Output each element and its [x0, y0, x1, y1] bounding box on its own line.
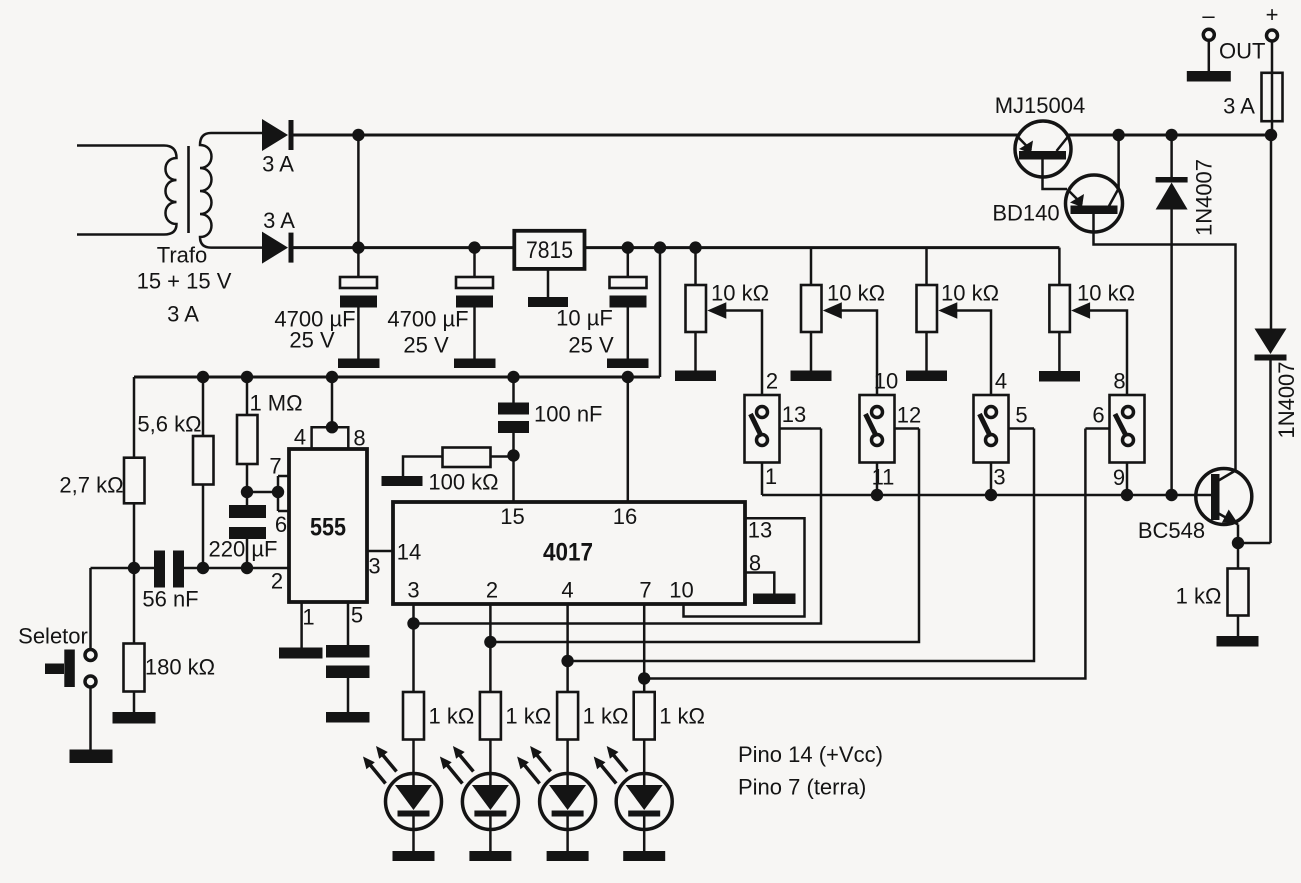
svg-text:7: 7 [639, 578, 651, 603]
ground under C1 [338, 359, 380, 369]
svg-text:3: 3 [407, 578, 419, 603]
svg-text:25 V: 25 V [403, 333, 449, 358]
svg-text:220 µF: 220 µF [209, 537, 278, 562]
resistor R3 1M [237, 371, 303, 505]
svg-text:3: 3 [993, 465, 1005, 490]
svg-text:10 kΩ: 10 kΩ [711, 281, 769, 306]
wire vertical link rail to +15V rail [654, 241, 666, 377]
svg-text:3 A: 3 A [1223, 94, 1255, 119]
wire 4017 pin3 to S1 [407, 429, 821, 693]
svg-text:1 kΩ: 1 kΩ [505, 704, 551, 729]
LED D3 [363, 740, 442, 852]
ground under P1 [675, 371, 716, 382]
svg-text:13: 13 [748, 518, 772, 543]
svg-text:3 A: 3 A [263, 208, 295, 233]
wire joining rectifier outputs [357, 135, 360, 248]
op-amp U2 4017 counter [393, 502, 745, 604]
svg-text:180 kΩ: 180 kΩ [145, 655, 215, 680]
svg-text:8: 8 [1113, 369, 1125, 394]
wire Q2 base to Q3 collector [1094, 214, 1236, 471]
svg-text:25 V: 25 V [568, 333, 614, 358]
capacitor C7 100nF [498, 371, 603, 502]
svg-text:–: – [1202, 3, 1215, 28]
LED D5 [517, 740, 596, 852]
ground under R4 [113, 712, 156, 724]
terminal OUT plus [1266, 2, 1279, 41]
svg-text:5: 5 [1015, 403, 1027, 428]
svg-text:6: 6 [275, 512, 287, 537]
svg-text:13: 13 [782, 402, 806, 427]
wire 4017 pin4 to S3 [561, 429, 1034, 693]
wire output plus branch [1269, 361, 1272, 544]
switch S2 contacts 10-12-11 [860, 369, 922, 496]
svg-text:BD140: BD140 [992, 201, 1059, 226]
ground under LED D3 [393, 851, 435, 861]
svg-text:2: 2 [271, 569, 283, 594]
svg-text:100 nF: 100 nF [534, 402, 603, 427]
wire 4017 pin7 to S4 [638, 429, 1085, 693]
ground under C3 [607, 359, 649, 369]
svg-text:OUT: OUT [1219, 39, 1265, 64]
potentiometer P4 10k [1049, 248, 1135, 395]
svg-text:10 kΩ: 10 kΩ [1077, 281, 1135, 306]
svg-text:2: 2 [766, 369, 778, 394]
capacitor C2 4700uF 25V [387, 241, 493, 358]
node junction top rail at C1 [352, 129, 364, 141]
ground 555 pin1 [279, 648, 323, 659]
switch S1 contacts 2-13-1 [745, 369, 822, 496]
svg-text:12: 12 [897, 403, 921, 428]
wire 4017 pin8 to ground [745, 551, 774, 594]
wire 4017 pin16 to +15V [622, 371, 634, 502]
pushbutton Seletor [18, 568, 96, 750]
wire Q2 collector to output rail [1112, 129, 1124, 189]
svg-text:1 kΩ: 1 kΩ [583, 704, 629, 729]
svg-text:10: 10 [874, 369, 898, 394]
transformer T1 Trafo 15+15V 3A [77, 133, 262, 327]
svg-text:15: 15 [500, 504, 524, 529]
svg-text:1 kΩ: 1 kΩ [1176, 584, 1222, 609]
ground under LED D4 [469, 851, 511, 861]
ground under LED D6 [623, 851, 665, 861]
svg-text:100 kΩ: 100 kΩ [428, 470, 498, 495]
wire 555 pin1 to ground [300, 602, 303, 648]
switch S3 contacts 4-5-3 [974, 369, 1035, 496]
ground under 7815 [528, 297, 568, 307]
svg-text:14: 14 [397, 540, 421, 565]
ground under P4 [1039, 371, 1080, 382]
wire top rail +V unregulated [294, 134, 1273, 137]
diode D2 3A bottom rectifier [262, 208, 295, 264]
ground under Seletor [70, 750, 113, 764]
svg-text:4: 4 [561, 578, 573, 603]
LED D6 [594, 740, 673, 852]
resistor R5 100k [403, 448, 514, 495]
svg-text:4017: 4017 [543, 539, 593, 567]
ground R5 [382, 476, 423, 486]
regulator U3 7815 [514, 231, 584, 297]
svg-text:1: 1 [765, 464, 777, 489]
svg-text:1: 1 [302, 605, 314, 630]
resistor R1 2,7k [59, 377, 144, 568]
resistor R2 5,6k [137, 371, 213, 568]
svg-text:BC548: BC548 [1138, 518, 1205, 543]
svg-text:10 kΩ: 10 kΩ [827, 281, 885, 306]
svg-text:15 + 15 V: 15 + 15 V [137, 269, 232, 294]
ground 4017 pin8 [753, 594, 796, 605]
wire node to 555 pins 7-6 [247, 476, 289, 511]
svg-text:3: 3 [368, 554, 380, 579]
transistor Q2 BD140 [992, 175, 1122, 232]
capacitor C5 56nF [142, 551, 198, 612]
svg-text:7: 7 [269, 454, 281, 479]
potentiometer P2 10k [801, 248, 885, 395]
svg-text:2: 2 [486, 578, 498, 603]
ground under LED D5 [547, 851, 589, 861]
diode D7 1N4007 [1156, 129, 1217, 495]
svg-text:1N4007: 1N4007 [1192, 159, 1217, 236]
svg-text:3 A: 3 A [167, 302, 199, 327]
wire Q3 emitter node [1232, 525, 1271, 569]
potentiometer P3 10k [917, 248, 1000, 395]
ground under C6 [326, 712, 370, 723]
op-amp U1 555 timer [269, 425, 380, 630]
node pin7/6 feed [241, 486, 253, 498]
resistor R6 1k LED1 [403, 692, 474, 740]
ground under minus terminal [1187, 71, 1231, 82]
capacitor C4 220uF [209, 505, 278, 568]
svg-text:56 nF: 56 nF [142, 587, 198, 612]
svg-text:4: 4 [995, 369, 1007, 394]
svg-text:10 µF: 10 µF [556, 306, 613, 331]
diode D8 1N4007 output [1255, 129, 1300, 439]
svg-text:1 kΩ: 1 kΩ [429, 704, 475, 729]
resistor R10 1k emitter [1176, 569, 1249, 637]
wire 555 pins 4-8 to +15V [312, 371, 349, 449]
svg-text:10: 10 [669, 578, 693, 603]
svg-text:1 MΩ: 1 MΩ [249, 391, 302, 416]
svg-text:25 V: 25 V [289, 328, 335, 353]
wire 4017 pin13 to pin10 loop [684, 518, 805, 617]
svg-text:2,7 kΩ: 2,7 kΩ [59, 473, 123, 498]
svg-text:11: 11 [872, 465, 895, 490]
diode D1 3A top rectifier [262, 119, 294, 177]
svg-text:+: + [1266, 2, 1279, 27]
svg-text:9: 9 [1113, 465, 1125, 490]
svg-text:8: 8 [749, 551, 761, 576]
capacitor C1 4700uF 25V [274, 241, 377, 358]
svg-text:1N4007: 1N4007 [1274, 361, 1299, 438]
resistor R8 1k LED3 [557, 692, 628, 740]
potentiometer P1 10k [686, 241, 770, 395]
svg-text:1 kΩ: 1 kΩ [659, 704, 705, 729]
ground under C2 [454, 359, 496, 369]
svg-text:5,6 kΩ: 5,6 kΩ [137, 412, 201, 437]
fuse F1 3A [1223, 41, 1282, 135]
svg-text:4700 µF: 4700 µF [387, 307, 468, 332]
resistor R7 1k LED2 [480, 692, 551, 740]
svg-text:MJ15004: MJ15004 [995, 93, 1086, 118]
transistor Q3 BC548 [1138, 469, 1252, 544]
ground under R10 [1217, 636, 1259, 647]
svg-text:10 kΩ: 10 kΩ [941, 281, 999, 306]
wire switch common line to BC548 base [762, 489, 1212, 501]
ground under P3 [906, 371, 947, 382]
capacitor C3 10uF 25V [556, 241, 646, 358]
svg-text:6: 6 [1092, 403, 1104, 428]
svg-text:Pino 7 (terra): Pino 7 (terra) [738, 775, 866, 800]
svg-text:7815: 7815 [526, 237, 573, 264]
wire second rail 7815 output [585, 246, 1060, 249]
switch S4 contacts 8-6-9 [1085, 369, 1144, 496]
svg-text:16: 16 [613, 504, 637, 529]
wire 555 pin2 trigger line [91, 562, 290, 574]
wire 555 pin3 to 4017 pin14 [367, 550, 393, 553]
capacitor C6 555 pin5 [326, 602, 370, 712]
LED D4 [440, 740, 519, 852]
transistor Q1 MJ15004 [995, 93, 1086, 177]
resistor R9 1k LED4 [634, 692, 705, 740]
svg-text:555: 555 [310, 514, 346, 542]
wire +15V distribution rail [134, 376, 660, 379]
svg-text:5: 5 [351, 603, 363, 628]
terminal OUT minus [1202, 3, 1265, 71]
wire second rail diode D2 to 7815 [294, 246, 515, 249]
wire Q1 base to Q2 emitter [1043, 160, 1068, 190]
svg-text:3 A: 3 A [262, 152, 294, 177]
svg-text:Trafo: Trafo [157, 243, 208, 268]
svg-text:8: 8 [353, 426, 365, 451]
wire 4017 pin2 to S2 [484, 429, 919, 693]
resistor R4 180k [124, 568, 216, 712]
svg-text:4: 4 [294, 425, 306, 450]
ground under P2 [791, 371, 832, 382]
svg-text:Pino 14 (+Vcc): Pino 14 (+Vcc) [738, 742, 883, 767]
svg-text:Seletor: Seletor [18, 624, 88, 649]
